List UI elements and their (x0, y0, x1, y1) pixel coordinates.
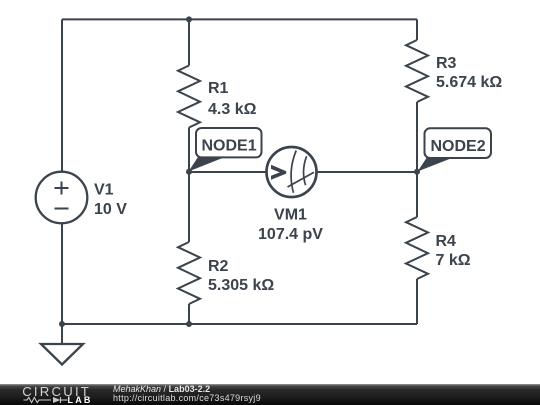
voltage source V1 (36, 172, 88, 224)
svg-text:4.3 kΩ: 4.3 kΩ (208, 101, 257, 118)
wire middle vertical mid (188, 128, 190, 243)
resistor R3 (406, 40, 428, 102)
wire bottom horizontal (62, 323, 417, 325)
node NODE1 callout (189, 128, 262, 172)
node junction top (186, 16, 192, 22)
wire left vertical upper (61, 19, 63, 171)
wire middle vertical lower (188, 304, 190, 324)
wire middle vertical upper (188, 19, 190, 65)
svg-text:107.4 pV: 107.4 pV (258, 226, 323, 243)
CircuitLab logo (0, 384, 100, 405)
svg-text:7 kΩ: 7 kΩ (436, 252, 471, 269)
node junction bottom left (59, 321, 65, 327)
voltmeter VM1 (267, 147, 317, 197)
wire right vertical lower (416, 279, 418, 324)
ground (41, 344, 83, 365)
wire left vertical lower (61, 223, 63, 324)
svg-text:NODE1: NODE1 (202, 138, 257, 155)
svg-text:NODE2: NODE2 (431, 138, 486, 155)
node NODE1 junction (186, 169, 192, 175)
svg-text:10 V: 10 V (94, 201, 127, 218)
svg-text:R1: R1 (208, 80, 229, 97)
svg-text:R3: R3 (436, 55, 457, 72)
svg-text:LAB: LAB (68, 395, 93, 405)
node NODE2 junction (414, 169, 420, 175)
wire right vertical upper (416, 19, 418, 40)
svg-text:5.305 kΩ: 5.305 kΩ (208, 277, 274, 294)
node junction bottom middle (186, 321, 192, 327)
svg-text:VM1: VM1 (274, 207, 307, 224)
wire top horizontal (62, 18, 417, 20)
svg-text:V1: V1 (94, 181, 114, 198)
node NODE2 callout (418, 128, 492, 171)
resistor R2 (178, 242, 200, 304)
wire voltmeter right (317, 171, 418, 173)
wire right vertical mid (416, 102, 418, 217)
resistor R1 (178, 66, 200, 128)
ground stem wire (61, 324, 63, 344)
svg-text:R2: R2 (208, 258, 229, 275)
svg-text:R4: R4 (436, 233, 457, 250)
wire voltmeter left (189, 171, 267, 173)
resistor R4 (406, 217, 428, 279)
svg-text:5.674 kΩ: 5.674 kΩ (436, 74, 502, 91)
